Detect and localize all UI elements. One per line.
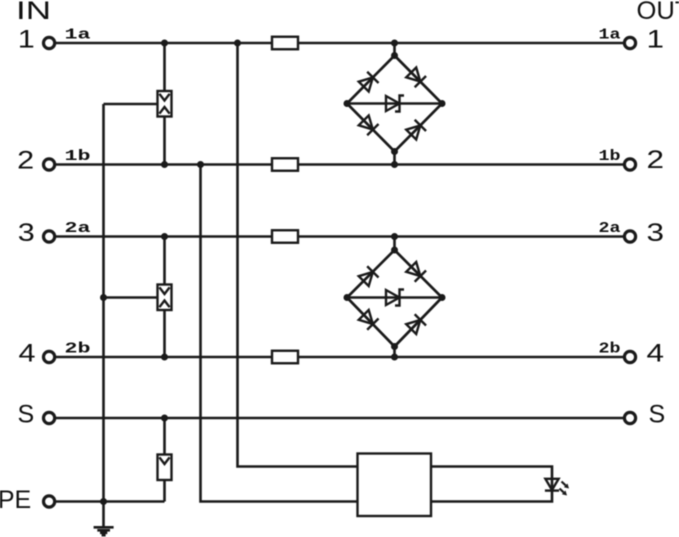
svg-text:1: 1 (18, 26, 35, 54)
svg-text:2a: 2a (65, 220, 91, 237)
svg-text:1a: 1a (65, 27, 91, 44)
svg-text:2: 2 (17, 147, 34, 175)
svg-text:1: 1 (647, 26, 665, 54)
svg-text:S: S (649, 401, 666, 429)
svg-text:OUT: OUT (637, 0, 679, 25)
svg-text:1b: 1b (599, 148, 621, 165)
svg-text:3: 3 (18, 219, 35, 247)
svg-text:S: S (17, 401, 34, 429)
svg-text:1b: 1b (65, 148, 91, 165)
svg-text:2b: 2b (599, 341, 621, 358)
svg-text:2a: 2a (599, 220, 621, 237)
svg-text:IN: IN (16, 0, 51, 25)
svg-text:3: 3 (647, 219, 665, 247)
svg-text:2: 2 (647, 146, 665, 174)
svg-text:4: 4 (647, 340, 665, 368)
svg-text:4: 4 (19, 340, 36, 368)
svg-text:2b: 2b (65, 341, 91, 358)
svg-text:PE: PE (0, 486, 31, 514)
svg-text:1a: 1a (599, 27, 621, 44)
